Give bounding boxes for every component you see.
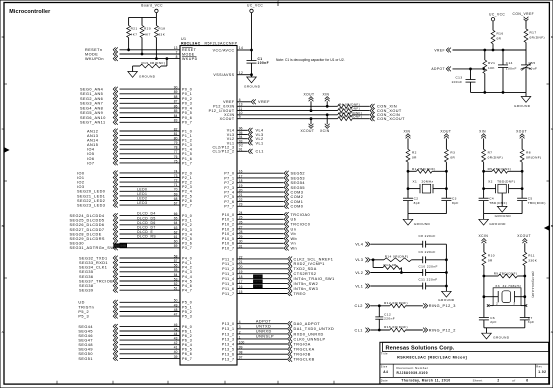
svg-text:P11_7: P11_7 xyxy=(222,292,234,296)
svg-text:Thursday, March 11, 2010: Thursday, March 11, 2010 xyxy=(401,379,450,383)
svg-text:DLCD_E: DLCD_E xyxy=(137,230,153,234)
svg-text:88: 88 xyxy=(174,95,178,99)
wire P2_6 pin 68 net SEG22_LED2 xyxy=(77,197,192,203)
svg-text:P13_1: P13_1 xyxy=(222,327,235,331)
svg-text:VREF: VREF xyxy=(223,100,235,104)
svg-text:P0_0: P0_0 xyxy=(182,88,192,92)
svg-text:P10_1: P10_1 xyxy=(222,218,235,222)
svg-text:P10_2: P10_2 xyxy=(222,223,235,227)
svg-text:C13: C13 xyxy=(455,76,462,80)
off-page XCOUT (32k crystal) xyxy=(517,234,531,252)
wire P13_4 pin 100 net TRGIOA xyxy=(222,340,311,346)
svg-text:R11: R11 xyxy=(528,254,535,258)
svg-text:SEG28_DLCDE: SEG28_DLCDE xyxy=(70,232,102,236)
WKUPD overline xyxy=(182,56,197,58)
svg-text:SEG32_TXD1: SEG32_TXD1 xyxy=(79,256,108,260)
svg-text:P0_5: P0_5 xyxy=(182,111,192,115)
off-page XCIN down-connector xyxy=(320,114,330,133)
wire WKUPDn to pin 8 xyxy=(85,55,198,61)
svg-text:84: 84 xyxy=(174,114,178,118)
svg-text:90: 90 xyxy=(174,86,178,90)
svg-text:P6_7: P6_7 xyxy=(182,357,192,361)
svg-text:65: 65 xyxy=(174,217,178,221)
wire P0_5 pin 85 net SEG5_AN9 xyxy=(80,109,192,115)
svg-text:P1_7: P1_7 xyxy=(182,161,192,165)
ground (32k circuit) xyxy=(482,328,510,340)
svg-text:SEG3_AN7: SEG3_AN7 xyxy=(80,102,103,106)
svg-text:P3_0: P3_0 xyxy=(182,214,192,218)
svg-text:P5_3: P5_3 xyxy=(182,315,192,319)
svg-text:R1 TBD(DNF): R1 TBD(DNF) xyxy=(412,167,436,171)
svg-text:58: 58 xyxy=(174,254,178,258)
svg-text:VL1: VL1 xyxy=(355,284,363,288)
wire VL3 pin 95 to off-page VL3 xyxy=(227,131,264,137)
svg-text:SEG24_DLCDD4: SEG24_DLCDD4 xyxy=(70,214,105,218)
wire P1_4 pin 78 net IO4 xyxy=(87,146,192,152)
svg-text:0R(DNF): 0R(DNF) xyxy=(530,36,546,40)
wire bottom rail of VREF network xyxy=(471,91,527,93)
svg-text:82: 82 xyxy=(174,127,178,131)
capacitor C15 10uF (polarized) xyxy=(521,50,538,92)
svg-text:100nF: 100nF xyxy=(451,80,462,84)
svg-text:1.02: 1.02 xyxy=(538,370,546,374)
svg-text:C14: C14 xyxy=(506,61,513,65)
svg-text:64: 64 xyxy=(174,221,178,225)
svg-text:A4: A4 xyxy=(383,370,388,374)
svg-text:4K7: 4K7 xyxy=(131,32,138,36)
svg-text:0R: 0R xyxy=(450,156,455,160)
svg-text:LED2: LED2 xyxy=(137,197,147,201)
capacitor C12 220nF xyxy=(375,306,395,331)
wire P4_4 pin 54 net SEG36 xyxy=(79,273,192,279)
svg-text:AN12: AN12 xyxy=(87,129,98,133)
svg-text:RXD0_UNRXD: RXD0_UNRXD xyxy=(294,332,324,336)
svg-text:GROUND: GROUND xyxy=(514,104,531,108)
svg-text:P3_6: P3_6 xyxy=(182,242,192,246)
svg-text:P7_2: P7_2 xyxy=(224,181,234,185)
svg-text:DLCD_D4: DLCD_D4 xyxy=(137,212,156,216)
svg-text:RV1: RV1 xyxy=(488,61,495,65)
wire 32k bottom rail xyxy=(484,327,525,329)
svg-text:XOUT: XOUT xyxy=(304,92,315,96)
svg-text:SEG27_DLCDD7: SEG27_DLCDD7 xyxy=(70,228,105,232)
svg-text:P11_3: P11_3 xyxy=(222,272,234,276)
capacitor C7 3pF xyxy=(520,316,535,328)
svg-text:0R: 0R xyxy=(488,259,493,263)
svg-text:DLCD_RS: DLCD_RS xyxy=(137,235,156,239)
svg-text:8pF: 8pF xyxy=(452,201,459,205)
svg-text:P11_2: P11_2 xyxy=(222,267,234,271)
svg-text:TRCIOC0: TRCIOC0 xyxy=(291,223,311,227)
svg-text:SEG25_DLCDD5: SEG25_DLCDD5 xyxy=(70,219,105,223)
svg-text:P3_4: P3_4 xyxy=(182,232,192,236)
svg-text:MODE: MODE xyxy=(182,52,195,56)
svg-text:P5_2: P5_2 xyxy=(78,310,89,314)
svg-text:VL2: VL2 xyxy=(355,271,363,275)
svg-text:SEG5_AN9: SEG5_AN9 xyxy=(80,111,103,115)
svg-text:P2_4: P2_4 xyxy=(182,190,192,194)
resistor R22 0R(DNF) on net CON_XCIN xyxy=(224,111,400,117)
wire P3_0 pin 66 net SEG24_DLCDD4 xyxy=(70,212,193,218)
svg-text:P4_3: P4_3 xyxy=(182,270,192,274)
svg-text:CLK0_UNNSLP: CLK0_UNNSLP xyxy=(294,337,326,341)
resistor R2 0R xyxy=(406,149,417,171)
svg-text:Size: Size xyxy=(381,364,388,368)
svg-text:SEG38: SEG38 xyxy=(79,284,94,288)
resistor R5 TBD(DNF) (feedback) xyxy=(483,167,523,189)
svg-text:Wb: Wb xyxy=(291,237,298,241)
svg-text:TRGIOA: TRGIOA xyxy=(294,342,311,346)
svg-text:P1_3: P1_3 xyxy=(182,143,192,147)
svg-text:68: 68 xyxy=(174,197,178,201)
svg-text:CL1: CL1 xyxy=(256,150,264,154)
svg-text:62: 62 xyxy=(174,230,178,234)
svg-text:85: 85 xyxy=(174,109,178,113)
svg-text:R19 0R(DNF): R19 0R(DNF) xyxy=(142,61,166,65)
svg-text:CON_VREF: CON_VREF xyxy=(513,12,535,16)
svg-text:R5F2L3ACCNFP: R5F2L3ACCNFP xyxy=(205,42,238,46)
svg-text:P3_5: P3_5 xyxy=(182,237,192,241)
svg-text:P3_2: P3_2 xyxy=(182,223,192,227)
svg-text:XOUT: XOUT xyxy=(440,130,451,134)
svg-text:P0_2: P0_2 xyxy=(182,97,192,101)
wire P0_0 pin 90 net SEG0_AN4 xyxy=(80,86,192,92)
off-page XIN (crystal) xyxy=(404,130,411,150)
svg-text:UC_VCC: UC_VCC xyxy=(247,3,263,7)
svg-text:SEG22_LED2: SEG22_LED2 xyxy=(77,199,105,203)
wire P7_4 pin 20 net COM3 xyxy=(224,189,303,195)
off-page VL2 with capacitor C10 220nF xyxy=(355,265,446,276)
potentiometer RV1 10K xyxy=(483,50,496,93)
svg-text:SEG52: SEG52 xyxy=(291,172,306,176)
svg-text:RJJ8U0039-0100: RJJ8U0039-0100 xyxy=(397,371,428,375)
svg-text:10K: 10K xyxy=(488,66,495,70)
svg-text:SEG23_LED3: SEG23_LED3 xyxy=(77,204,105,208)
svg-text:R18: R18 xyxy=(158,27,165,31)
svg-text:SEG33_RXD1: SEG33_RXD1 xyxy=(79,261,108,265)
resistor R23 0R(DNF) on net CON_XCOUT xyxy=(220,115,405,121)
power symbol UC_VCC xyxy=(247,3,263,50)
svg-text:P5_3: P5_3 xyxy=(78,315,89,319)
resistor R7 0R(DNF) xyxy=(482,149,503,171)
svg-text:P7_1: P7_1 xyxy=(224,176,234,180)
svg-text:87: 87 xyxy=(174,100,178,104)
svg-text:P6_3: P6_3 xyxy=(182,339,192,343)
svg-text:P1_0: P1_0 xyxy=(182,129,192,133)
svg-text:X1: X1 xyxy=(413,180,418,184)
svg-text:20MHz: 20MHz xyxy=(422,180,434,184)
svg-text:P13_2: P13_2 xyxy=(222,332,235,336)
wire P3_1 pin 65 net SEG25_DLCDD5 xyxy=(70,216,193,222)
svg-text:TRGCLKA: TRGCLKA xyxy=(294,348,315,352)
svg-text:DLCD_D5: DLCD_D5 xyxy=(137,216,156,220)
svg-text:2: 2 xyxy=(496,302,498,306)
pin 92 CL2/P12_3 (no connection) xyxy=(212,144,243,150)
IC U1 R8CL3AC body xyxy=(180,37,238,365)
svg-text:SEG36: SEG36 xyxy=(79,275,94,279)
svg-text:2: 2 xyxy=(497,379,499,383)
svg-text:SEG47: SEG47 xyxy=(78,339,93,343)
svg-text:R21: R21 xyxy=(131,27,138,31)
wire P10_6 pin 30 net Vn xyxy=(222,240,296,246)
svg-text:SW2: SW2 xyxy=(254,279,261,283)
svg-text:56: 56 xyxy=(174,264,178,268)
wire P4_2 pin 56 net SEG34_CLK1 xyxy=(79,264,192,270)
svg-text:Rev: Rev xyxy=(536,364,542,368)
wire P5_2 pin 48 net P5_2 xyxy=(78,308,192,314)
wire P0_3 pin 87 net SEG3_AN7 xyxy=(80,100,192,106)
svg-text:SEG29_DLCDRS: SEG29_DLCDRS xyxy=(70,237,105,241)
svg-text:P11_0: P11_0 xyxy=(222,257,234,261)
wire P1_3 pin 79 net AN15 xyxy=(87,141,192,147)
svg-text:TREO: TREO xyxy=(294,292,306,296)
svg-text:47: 47 xyxy=(174,313,178,317)
capacitor C4 TBD(DNF) xyxy=(479,189,508,214)
wire P4_1 pin 57 net SEG33_RXD1 xyxy=(79,259,192,265)
svg-text:UD: UD xyxy=(78,301,84,305)
svg-text:P2_2: P2_2 xyxy=(182,181,192,185)
svg-text:0R: 0R xyxy=(412,156,417,160)
svg-text:C1: C1 xyxy=(258,57,263,61)
svg-text:SEG20_LED0: SEG20_LED0 xyxy=(77,190,105,194)
svg-text:DA0_ADPOT: DA0_ADPOT xyxy=(294,322,321,326)
svg-text:SEG31_ADTRGn_SW3: SEG31_ADTRGn_SW3 xyxy=(70,246,117,250)
svg-text:LED0: LED0 xyxy=(137,187,147,191)
svg-text:AN15: AN15 xyxy=(87,143,98,147)
svg-text:SEG1_AN5: SEG1_AN5 xyxy=(80,92,103,96)
svg-text:P6_1: P6_1 xyxy=(182,329,192,333)
svg-text:P1_2: P1_2 xyxy=(182,139,192,143)
svg-text:R10: R10 xyxy=(488,254,495,258)
svg-text:LED3: LED3 xyxy=(137,201,147,205)
wire P3_4 pin 62 net SEG28_DLCDE xyxy=(70,230,193,236)
wire P10_7 pin 31 net Wn xyxy=(222,245,297,251)
wire P11_5 pin 17 net INT5n_SW2 xyxy=(222,279,318,286)
wire P4_3 pin 55 net SEG35 xyxy=(79,268,192,274)
resistor R18 33K xyxy=(154,17,165,59)
svg-text:P4_1: P4_1 xyxy=(182,261,192,265)
svg-text:P2_6: P2_6 xyxy=(182,199,192,203)
svg-text:SEG49: SEG49 xyxy=(78,348,93,352)
wire P4_0 pin 58 net SEG32_TXD1 xyxy=(79,254,192,260)
svg-text:SEG45: SEG45 xyxy=(78,329,93,333)
svg-text:P2_5: P2_5 xyxy=(182,194,192,198)
wire P5_3 pin 47 net P5_3 xyxy=(78,313,192,319)
wire VL1 pin 93 to off-page VL1 xyxy=(227,139,264,145)
svg-text:SEG0_AN4: SEG0_AN4 xyxy=(80,88,103,92)
svg-text:UC_VCC: UC_VCC xyxy=(489,13,505,17)
crystal X1 20MHz xyxy=(407,180,447,194)
svg-text:SEG7_AN11: SEG7_AN11 xyxy=(80,121,106,125)
svg-text:6: 6 xyxy=(526,379,528,383)
off-page XOUT (crystal) xyxy=(440,130,451,150)
wire P1_1 pin 81 net AN13 xyxy=(87,132,192,138)
svg-text:P1_6: P1_6 xyxy=(182,157,192,161)
svg-text:8pF: 8pF xyxy=(414,201,421,205)
crystal X2 TBD(DNF) xyxy=(483,180,523,194)
svg-text:Renesas Solutions Corp.: Renesas Solutions Corp. xyxy=(386,346,455,352)
svg-text:P2_7: P2_7 xyxy=(182,204,192,208)
wire P3_2 pin 64 net SEG26_DLCDD6 xyxy=(70,221,193,227)
svg-text:89: 89 xyxy=(174,90,178,94)
wire P4_5 pin 53 net SEG37_TRCIOB xyxy=(79,277,192,283)
svg-text:AN13: AN13 xyxy=(87,134,98,138)
wire P2_2 pin 72 net IO2 xyxy=(77,179,192,185)
svg-text:RSKR8CL3AC [R8C/L3AC Micon]: RSKR8CL3AC [R8C/L3AC Micon] xyxy=(397,356,467,360)
svg-text:P7_0: P7_0 xyxy=(224,172,234,176)
svg-text:P0_3: P0_3 xyxy=(182,102,192,106)
svg-text:SEG48: SEG48 xyxy=(78,343,93,347)
svg-text:C11 220nF: C11 220nF xyxy=(419,277,438,281)
wire P11_6 pin 16 net INT6n_SW3 xyxy=(222,284,318,291)
wire P13_5 pin 99 net TRGCLKA xyxy=(222,346,315,352)
svg-text:P13_6: P13_6 xyxy=(222,353,235,357)
ground (VL caps) xyxy=(438,291,455,302)
svg-text:A: A xyxy=(2,330,4,334)
svg-text:Date: Date xyxy=(381,379,388,383)
svg-text:R8CL3AC: R8CL3AC xyxy=(181,42,201,46)
svg-text:55: 55 xyxy=(174,268,178,272)
title block xyxy=(380,342,549,384)
wire P0_1 pin 89 net SEG1_AN5 xyxy=(80,90,192,96)
svg-text:P3_7: P3_7 xyxy=(182,246,192,250)
svg-text:P4_4: P4_4 xyxy=(182,275,192,279)
svg-text:GROUND: GROUND xyxy=(495,214,512,218)
svg-text:COM3: COM3 xyxy=(291,191,304,195)
svg-text:RING_P12_3: RING_P12_3 xyxy=(429,304,456,308)
resistor R4 0R(DNF) on net CON_XIN xyxy=(213,102,397,108)
svg-text:P6_6: P6_6 xyxy=(182,352,192,356)
svg-text:D: D xyxy=(2,35,5,39)
svg-text:69: 69 xyxy=(174,192,178,196)
svg-text:SEG53: SEG53 xyxy=(291,176,306,180)
svg-text:(SB-1T)(UCL4-A,AP): (SB-1T)(UCL4-A,AP) xyxy=(531,272,535,298)
svg-text:75: 75 xyxy=(174,159,178,163)
svg-text:80: 80 xyxy=(174,137,178,141)
svg-text:C8 220nF: C8 220nF xyxy=(419,234,436,238)
svg-text:P13_4: P13_4 xyxy=(222,342,235,346)
svg-text:P1_5: P1_5 xyxy=(182,152,192,156)
svg-text:INT5n_SW2: INT5n_SW2 xyxy=(294,282,319,286)
svg-text:330K: 330K xyxy=(528,259,538,263)
svg-text:42: 42 xyxy=(174,341,178,345)
svg-text:P2_3: P2_3 xyxy=(182,185,192,189)
svg-text:WKUPDn: WKUPDn xyxy=(85,57,104,61)
svg-text:SEG37_TRCIOB: SEG37_TRCIOB xyxy=(79,279,113,283)
svg-text:XCIN: XCIN xyxy=(320,129,330,133)
RESET overline xyxy=(182,47,193,49)
svg-text:63: 63 xyxy=(174,226,178,230)
wire RESETn to pin 13 xyxy=(85,46,197,52)
svg-text:P1_1: P1_1 xyxy=(182,134,192,138)
resistor R19 0R(DNF) xyxy=(133,58,168,68)
wire P0_4 pin 86 net SEG4_AN8 xyxy=(80,105,192,111)
svg-text:Vb: Vb xyxy=(291,232,297,236)
svg-text:CL1/P12_2: CL1/P12_2 xyxy=(212,150,234,154)
svg-text:8: 8 xyxy=(176,55,178,59)
svg-text:P4_2: P4_2 xyxy=(182,266,192,270)
svg-text:XCOUT: XCOUT xyxy=(517,234,531,238)
wire P7_3 pin 19 net SEG55 xyxy=(224,184,305,190)
svg-text:P0_6: P0_6 xyxy=(182,116,192,120)
svg-text:IO2: IO2 xyxy=(77,181,84,185)
wire P2_4 pin 70 net SEG20_LED0 xyxy=(77,187,192,193)
svg-text:VL4: VL4 xyxy=(355,243,363,247)
svg-text:P13_7: P13_7 xyxy=(222,358,235,362)
svg-text:P7_5: P7_5 xyxy=(224,195,234,199)
svg-text:P7_6: P7_6 xyxy=(224,200,234,204)
off-page XOUT (crystal) xyxy=(516,130,527,150)
ground (crystal circuit) xyxy=(479,214,506,226)
svg-text:50: 50 xyxy=(174,299,178,303)
svg-text:of: of xyxy=(512,379,515,383)
svg-text:P6_0: P6_0 xyxy=(182,325,192,329)
wire P7_2 pin 18 net SEG54 xyxy=(224,179,305,185)
svg-text:81: 81 xyxy=(174,132,178,136)
svg-text:220nF: 220nF xyxy=(384,316,395,320)
svg-text:TBD(DNF): TBD(DNF) xyxy=(497,180,515,184)
svg-text:VL1: VL1 xyxy=(256,141,264,145)
svg-text:GROUND: GROUND xyxy=(493,336,510,340)
svg-text:B: B xyxy=(2,224,4,228)
capacitor C13 100nF xyxy=(451,69,475,93)
svg-text:SEG4_AN8: SEG4_AN8 xyxy=(80,107,103,111)
wire P10_5 pin 29 net Wb xyxy=(222,235,297,241)
off-page XCOUT down-connector xyxy=(301,118,315,133)
svg-text:66: 66 xyxy=(174,212,178,216)
svg-text:40: 40 xyxy=(174,350,178,354)
svg-text:P10_0: P10_0 xyxy=(222,213,235,217)
wire VL common rail xyxy=(446,244,448,291)
wire P13_7 pin 97 net TRGCLKB xyxy=(222,356,315,362)
svg-text:TRCIOA0: TRCIOA0 xyxy=(291,213,311,217)
svg-text:3: 3 xyxy=(513,302,515,306)
svg-text:R2: R2 xyxy=(412,151,417,155)
svg-text:CLK2_SCL_NREF1: CLK2_SCL_NREF1 xyxy=(294,257,334,261)
svg-text:SEG34_CLK1: SEG34_CLK1 xyxy=(79,266,107,270)
svg-text:3pF: 3pF xyxy=(528,320,535,324)
svg-text:P2_1: P2_1 xyxy=(182,176,192,180)
svg-text:C10 220nF: C10 220nF xyxy=(419,265,438,269)
svg-text:IO4: IO4 xyxy=(87,148,94,152)
wire P0_6 pin 84 net SEG6_AN10 xyxy=(80,114,192,120)
wire P6_3 pin 43 net SEG47 xyxy=(78,337,192,343)
wire P7_0 pin 16 net SEG52 xyxy=(224,170,305,176)
ground (crystal circuit) xyxy=(403,214,430,226)
svg-text:SEG26_DLCDD6: SEG26_DLCDD6 xyxy=(70,223,105,227)
svg-text:LED1: LED1 xyxy=(137,192,147,196)
wire P6_4 pin 42 net SEG48 xyxy=(78,341,192,347)
wire P2_3 pin 71 net IO3 xyxy=(77,183,192,189)
svg-text:P11_6: P11_6 xyxy=(222,287,234,291)
resistor R17 0R(DNF) xyxy=(524,29,545,50)
svg-text:SEG51: SEG51 xyxy=(78,357,93,361)
svg-text:48: 48 xyxy=(174,308,178,312)
svg-text:DA1_TXD0_UNTXD: DA1_TXD0_UNTXD xyxy=(294,327,335,331)
wire crystal bottom rail xyxy=(408,213,446,215)
svg-text:7: 7 xyxy=(176,50,178,54)
svg-text:Ub: Ub xyxy=(291,218,297,222)
svg-text:TRGIOB: TRGIOB xyxy=(294,353,311,357)
svg-text:IO3: IO3 xyxy=(77,185,84,189)
svg-text:0R: 0R xyxy=(497,37,502,41)
svg-text:RXD2_IVCMP1: RXD2_IVCMP1 xyxy=(294,262,325,266)
wire P10_3 pin 27 net Un xyxy=(222,225,296,231)
svg-text:VREF: VREF xyxy=(434,48,445,52)
capacitor C1 100nF xyxy=(247,50,269,75)
svg-text:DLCD_D6: DLCD_D6 xyxy=(137,221,156,225)
svg-text:SW3: SW3 xyxy=(254,284,261,288)
